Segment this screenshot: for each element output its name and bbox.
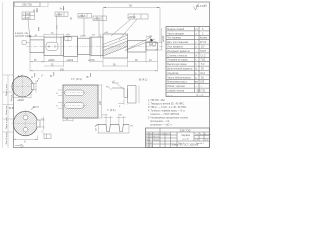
view arrow mark bottom [15,144,24,148]
crest line with thread grooves [95,124,129,131]
groove line at section 5 step [91,37,93,55]
left dim marks [58,89,63,91]
svg-text:остальных — ±t/2 ч.: остальных — ±t/2 ч. [150,123,172,126]
svg-text:Б: Б [33,8,35,12]
dim texts below [34,59,152,71]
svg-text:11°19': 11°19' [200,41,207,44]
face roughness box [22,41,26,44]
thread direction wedge leader [125,37,156,51]
svg-text:(√): (√) [204,4,208,8]
svg-text:Масшт.: Масшт. [205,134,212,136]
svg-text:Иванов: Иванов [153,136,160,138]
centerline [26,45,164,47]
technical requirements text [148,99,189,127]
svg-text:7,85: 7,85 [200,59,205,62]
svg-text:1Б: 1Б [150,43,153,46]
drawing frame [14,2,210,148]
svg-text:В: В [87,75,89,79]
svg-text:Пров.: Пров. [146,139,151,141]
svg-text:Исходный червяк по: Исходный червяк по [167,50,190,53]
small tolerance box lower right [44,134,51,139]
svg-text:20°: 20° [96,128,98,131]
keyway cut [37,120,40,127]
section 1 [30,40,44,53]
svg-text:2 центр. отв.: 2 центр. отв. [15,33,29,35]
svg-text:1,9: 1,9 [195,140,198,142]
svg-text:⌀40h8: ⌀40h8 [94,18,101,21]
dim arrows [30,61,158,71]
callout box mid [78,14,92,37]
upper slot mark on section 3 [64,37,72,41]
svg-text:Обозн. чертежа: Обозн. чертежа [167,85,185,88]
svg-text:236.730: 236.730 [22,2,32,6]
section A-A circle [11,74,39,102]
svg-text:Ход витка: Ход витка [167,72,179,75]
svg-text:Н.контр.: Н.контр. [146,146,154,148]
leader note left (center holes) [15,33,32,44]
slot 2 [65,103,85,109]
svg-text:Червяк: Червяк [181,133,191,137]
svg-text:Модуль осевой: Модуль осевой [167,28,185,31]
worm parameter table [166,27,210,97]
section 7 [128,41,147,53]
svg-text:Инв №: Инв № [10,94,13,101]
worm section d50 [103,34,128,58]
tolerance frame top-left (2 rows) [22,12,35,35]
worm thread callout [111,14,148,40]
section cut mark А upper [60,6,65,11]
svg-text:Г (4:1): Г (4:1) [108,108,116,112]
svg-text:31,4: 31,4 [200,72,205,75]
svg-text:236.730: 236.730 [180,128,191,132]
root/dim line [98,132,130,134]
svg-text:Межосевое расст.: Межосевое расст. [167,81,187,84]
section 5 [90,37,103,55]
svg-text:ГОСТ: ГОСТ [200,50,207,53]
top-left document stamp [15,2,49,7]
left margin rotated labels [5,83,13,144]
left margin column boxes [3,75,14,148]
right dim [101,85,103,118]
svg-text:20°: 20° [201,46,205,49]
svg-text:Дел. угол подъема: Дел. угол подъема [167,41,188,44]
svg-text:Архим.: Архим. [200,37,208,40]
svg-text:сопряж. колеса: сопряж. колеса [167,90,185,93]
svg-text:⌀35k6: ⌀35k6 [48,59,55,62]
dim 56 top [103,8,160,43]
callout box d30k6 [55,12,68,42]
svg-text:Подп. и дата: Подп. и дата [6,83,8,96]
svg-text:Лит.: Лит. [195,134,199,136]
svg-text:8 — C: 8 — C [197,94,204,97]
right end diameter dim [158,28,163,50]
svg-text:Сталь 45 ГОСТ 1050-88: Сталь 45 ГОСТ 1050-88 [172,144,199,147]
svg-text:⌀35: ⌀35 [99,100,102,105]
dimension lines below shaft [30,50,158,72]
section 2 with keyway [44,37,64,55]
svg-text:Толщина по хорде: Толщина по хорде [167,59,188,62]
svg-text:А: А [60,6,62,10]
outer margin line [2,2,4,148]
roughness symbol top-right [194,4,208,11]
svg-text:Угол профиля: Угол профиля [167,46,183,49]
svg-text:aw: aw [195,81,198,84]
svg-text:Т.контр.: Т.контр. [146,142,153,144]
svg-text:— —: — — [167,94,173,97]
section cut mark Б upper [33,8,38,13]
svg-text:Листов 1: Листов 1 [196,143,204,145]
worm helix band hatched [103,41,128,56]
keyway longitudinal section [56,77,102,122]
slot 1 [65,90,85,96]
svg-text:⌖ 0,05: ⌖ 0,05 [23,17,30,20]
section 8 end [146,43,158,51]
svg-text:155: 155 [200,81,205,84]
flag near label [31,107,39,110]
svg-text:Инв.№ подл.: Инв.№ подл. [5,131,8,144]
svg-text:Г-Г (2:1): Г-Г (2:1) [71,77,82,81]
svg-text:z₂: z₂ [195,76,197,79]
svg-text:⊥ 0,02: ⊥ 0,02 [23,13,31,16]
svg-text:⌀40h9: ⌀40h9 [67,59,74,62]
svg-text:1×45°: 1×45° [146,36,152,39]
svg-text:Число зубьев колеса: Число зубьев колеса [167,76,191,79]
dim above shaft sections [30,34,63,40]
svg-text:2×45°: 2×45° [102,113,108,116]
svg-text:m = 5: m = 5 [183,139,190,141]
svg-text:Б-Б: Б-Б [9,106,14,110]
relief groove at step [60,37,62,55]
svg-text:Высота до хорды: Высота до хорды [167,63,186,66]
svg-text:Ст.С: Ст.С [201,54,206,57]
svg-text:Делительный диаметр: Делительный диаметр [167,68,193,71]
svg-text:⌀35k6: ⌀35k6 [79,15,86,18]
bottom dim [63,120,73,122]
svg-text:⌀50h9: ⌀50h9 [129,16,136,19]
dim under [13,96,31,98]
view flags below shaft [31,74,89,79]
svg-text:⌀30k6: ⌀30k6 [17,99,24,102]
keyway cut [31,83,34,89]
keyway slot [46,42,58,50]
svg-text:⌀32k6: ⌀32k6 [80,35,87,38]
detail flag near A-A [38,75,43,82]
title block [146,128,212,148]
svg-text:Взам.инв.: Взам.инв. [6,105,8,115]
section 4 [78,38,91,54]
svg-text:Степень точности: Степень точности [167,54,188,57]
detail B (groove) [106,78,147,108]
svg-text:2:1: 2:1 [205,140,208,142]
cut plane marks near shaft [39,25,57,31]
svg-text:Подп. и дата: Подп. и дата [6,116,8,129]
svg-text:d₁: d₁ [195,68,197,71]
svg-text:⌀20k6: ⌀20k6 [162,35,165,42]
svg-text:Тип червяка: Тип червяка [167,37,181,40]
holes [23,115,28,120]
svg-text:Петров: Петров [153,139,159,141]
dim under [12,136,14,141]
svg-text:А: А [31,75,33,79]
callout box 2 [93,16,107,37]
svg-text:⌀37h9: ⌀37h9 [88,59,95,62]
svg-text:Лист 1: Лист 1 [178,143,184,145]
svg-text:236.731: 236.731 [197,90,206,93]
dim extensions and lines [98,116,129,133]
detail Г (thread profile) [95,108,134,133]
svg-text:В (4:1): В (4:1) [139,78,147,82]
section Б-Б circle [9,106,51,148]
section 3 d40 [64,36,78,56]
svg-text:Число заходов: Число заходов [167,32,184,35]
svg-text:Б: Б [50,74,52,78]
svg-text:⌀30k6: ⌀30k6 [56,13,63,16]
svg-text:М: М [70,18,72,21]
svg-text:m: m [196,28,198,31]
worm dia dim left [100,34,102,58]
